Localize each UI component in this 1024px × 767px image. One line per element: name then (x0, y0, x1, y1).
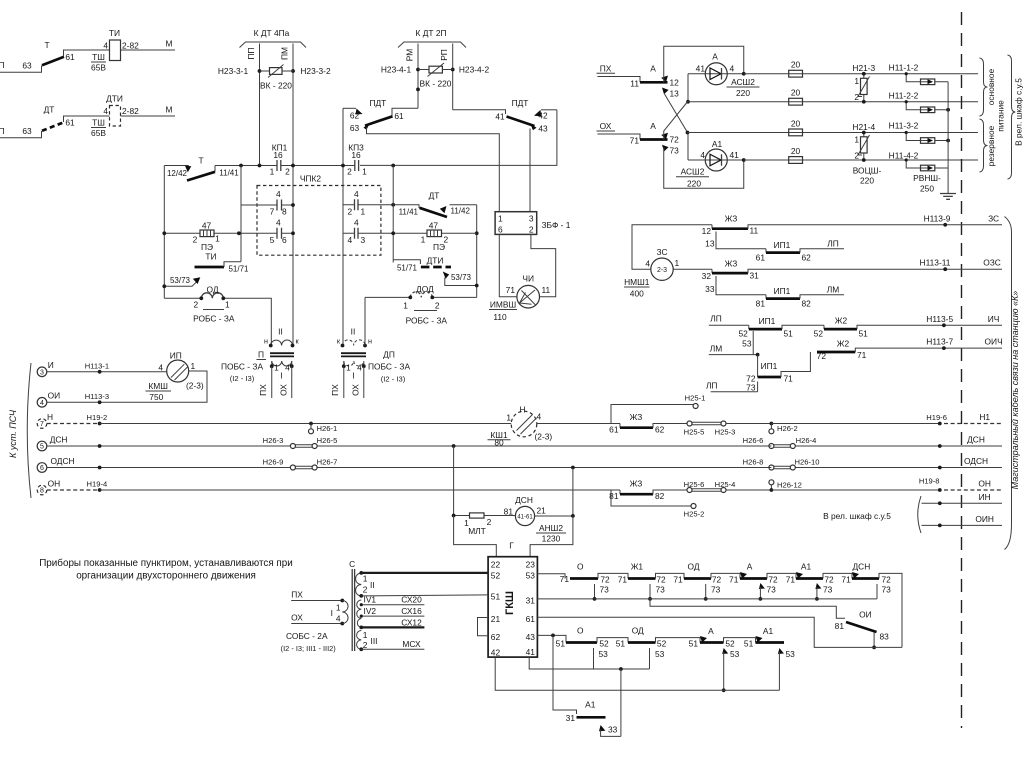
svg-text:11: 11 (750, 226, 759, 236)
svg-text:II: II (278, 327, 283, 337)
wire varistor leads (260, 70, 294, 72)
svg-text:А1: А1 (585, 700, 596, 710)
svg-text:52: 52 (814, 329, 824, 339)
svg-text:ИП: ИП (170, 351, 182, 361)
jumper H26-8 H26-10 (743, 456, 1002, 470)
resistor PE 47 center (421, 221, 449, 266)
svg-text:Н113-7: Н113-7 (926, 337, 953, 347)
svg-text:4: 4 (40, 400, 44, 407)
transformer SOBS core (352, 569, 354, 651)
svg-text:220: 220 (860, 176, 874, 186)
svg-text:53/73: 53/73 (170, 276, 191, 285)
transformer DP winding II dashed (337, 327, 372, 348)
contact DT 63-61 dashed (22, 105, 75, 137)
wire N row to KSh1 (100, 423, 512, 425)
svg-text:ЛМ: ЛМ (827, 284, 839, 294)
svg-text:2: 2 (435, 301, 440, 311)
bracket K DT 4Pa (240, 28, 307, 48)
svg-text:42: 42 (491, 648, 501, 658)
svg-text:I: I (280, 371, 282, 381)
wire 72 cross to row2 (664, 102, 688, 140)
wire PE row center (391, 231, 476, 235)
wire 42 riser to row (360, 110, 557, 166)
svg-text:71: 71 (786, 574, 796, 584)
svg-text:1: 1 (854, 135, 859, 145)
svg-text:1: 1 (270, 167, 275, 177)
wire P primary leads PH OH (258, 366, 292, 398)
svg-text:Н25-5: Н25-5 (684, 428, 705, 437)
wire ON row dashed start (47, 480, 107, 492)
wire C line thick (361, 572, 488, 574)
svg-text:ВК - 220: ВК - 220 (420, 79, 452, 89)
contact IP1 61-62 (756, 238, 844, 262)
brace rezervnoe (980, 119, 997, 172)
relay coil DSN ANSh2-1230 (504, 495, 566, 544)
resistor MLT (464, 513, 515, 536)
svg-text:Н25-6: Н25-6 (684, 480, 705, 489)
transformer SOBS winding II (356, 571, 375, 598)
svg-text:21: 21 (491, 614, 501, 624)
svg-text:61: 61 (394, 111, 404, 121)
svg-text:20: 20 (791, 60, 801, 70)
wire column x393 (392, 166, 394, 263)
wire LP feed ICh row (709, 313, 749, 325)
capacitor ChPK2 5-6 (239, 218, 295, 246)
svg-text:65В: 65В (91, 128, 106, 138)
bracket K DT 2P (398, 28, 466, 48)
inductor DOD ROBS-3A dashed (365, 284, 477, 326)
wire 41 line from box (529, 657, 649, 671)
transformer DP winding I dashed (342, 361, 366, 381)
svg-text:Н23-4-1: Н23-4-1 (381, 65, 412, 75)
svg-text:Н26-8: Н26-8 (743, 458, 764, 467)
svg-text:73: 73 (882, 585, 892, 595)
svg-text:ДСН: ДСН (853, 562, 871, 572)
wire row3 main (688, 132, 979, 134)
wire 63 lead row2 (0, 131, 42, 138)
transformer P winding I (270, 361, 294, 381)
svg-text:АНШ2: АНШ2 (539, 523, 563, 533)
svg-text:73: 73 (767, 585, 777, 595)
transformer P labels (221, 350, 266, 384)
contact OI 81-83 (835, 609, 889, 649)
terminal H113-7 (926, 337, 1002, 350)
svg-text:ОД: ОД (632, 625, 644, 635)
svg-text:Магистральный кабель связи на: Магистральный кабель связи на станцию «К… (1010, 291, 1020, 490)
contact IP1 72-71 (746, 352, 810, 384)
svg-text:МЛТ: МЛТ (468, 526, 486, 536)
svg-text:12/42: 12/42 (167, 169, 188, 178)
fuse 20 row4 (789, 146, 803, 164)
svg-text:IV1: IV1 (364, 595, 377, 605)
svg-text:ИЧ: ИЧ (988, 314, 1000, 324)
tick O 53 (594, 648, 609, 669)
svg-text:2: 2 (193, 300, 198, 310)
node H23-4-2 (451, 68, 455, 72)
brace osnovnoe (980, 58, 997, 116)
svg-text:42: 42 (538, 111, 548, 121)
svg-text:А: А (650, 64, 656, 74)
contact OD 71-72 upper (684, 562, 740, 585)
svg-text:ИМВШ: ИМВШ (490, 300, 516, 310)
svg-text:О: О (577, 562, 584, 572)
wire 61 line from box (537, 617, 902, 647)
wire PH feed (597, 64, 641, 89)
tick A1 53 arrow (778, 648, 795, 690)
svg-text:Н113-11: Н113-11 (920, 258, 951, 268)
svg-text:ДП: ДП (383, 350, 395, 360)
svg-text:Н19-8: Н19-8 (919, 476, 940, 485)
svg-text:И: И (48, 360, 54, 370)
brace main cable (1005, 217, 1012, 550)
node DSN branch (452, 444, 456, 448)
tick OD 73 (704, 584, 721, 601)
wire OH feed (291, 612, 344, 625)
node LP partial label (0, 60, 5, 136)
svg-text:ЗС: ЗС (988, 213, 999, 223)
svg-text:Н113-5: Н113-5 (926, 314, 953, 324)
jumper H26-9 H26-7 (263, 458, 338, 471)
svg-text:А1: А1 (801, 562, 812, 572)
svg-text:Н25-2: Н25-2 (684, 510, 705, 519)
wire PM (280, 44, 294, 346)
wire 21-62 loop (478, 618, 489, 636)
contact PDT 62-61-63 (343, 98, 418, 133)
svg-text:81: 81 (504, 507, 514, 517)
wire DSN riser left (452, 446, 470, 517)
svg-text:72: 72 (712, 574, 722, 584)
resistor PE 47 left (193, 221, 221, 262)
svg-text:ОИЧ: ОИЧ (985, 337, 1003, 347)
svg-text:н: н (368, 337, 372, 346)
svg-text:ОХ: ОХ (291, 612, 303, 622)
svg-text:4: 4 (645, 259, 650, 269)
svg-text:41: 41 (526, 647, 536, 657)
svg-text:ЖЗ: ЖЗ (725, 258, 738, 268)
svg-text:1230: 1230 (542, 534, 561, 544)
wire 62 column (342, 108, 344, 345)
brace IN OIN (823, 496, 921, 533)
wire N row dashed start (47, 413, 107, 425)
svg-text:72: 72 (656, 574, 666, 584)
arrester RVNSh row1 (889, 63, 948, 85)
svg-text:ДТИ: ДТИ (106, 94, 123, 104)
relay coil IP KMSh-750 (146, 351, 204, 402)
svg-text:63: 63 (22, 126, 32, 136)
svg-text:1: 1 (675, 258, 680, 268)
svg-text:3: 3 (40, 369, 44, 376)
capacitor KP1 16 (270, 143, 291, 177)
contact A1 51-52 lower (756, 626, 785, 643)
tick O 73 (593, 584, 610, 601)
svg-text:Н26-10: Н26-10 (795, 458, 820, 467)
svg-text:20: 20 (791, 88, 801, 98)
svg-text:4: 4 (336, 614, 341, 624)
contact ZhZ 61-62 (609, 412, 687, 435)
wire PE row left (162, 231, 240, 235)
contact ZhZ 12-11 (702, 214, 1002, 237)
arrester RVNSh row2 (889, 91, 950, 113)
svg-text:220: 220 (687, 179, 701, 189)
svg-text:2: 2 (363, 585, 368, 595)
svg-text:41-61: 41-61 (517, 514, 533, 520)
svg-text:РОБС - ЗА: РОБС - ЗА (193, 314, 235, 324)
svg-text:основное: основное (986, 68, 996, 105)
contact DTI 51/71 dashed (393, 260, 451, 273)
svg-text:ИП1: ИП1 (761, 361, 778, 371)
contact T 12/42 11/41 (164, 156, 239, 181)
svg-text:65В: 65В (91, 63, 106, 73)
tick A1 73 arrow (815, 583, 833, 601)
wire DSN row (47, 444, 772, 448)
svg-text:СХ20: СХ20 (401, 595, 422, 605)
svg-text:4: 4 (103, 41, 108, 51)
wire diode A left lead down (686, 72, 746, 104)
svg-text:ДТ: ДТ (429, 191, 440, 201)
tick A 73 arrow (759, 583, 777, 601)
wire 63 lead row1 (0, 66, 42, 73)
capacitor ChPK2 4-3 (343, 218, 393, 246)
capacitor ChPK2 7-8 (241, 189, 295, 217)
wire 51 line (361, 595, 488, 596)
tick A 53 arrow (722, 648, 740, 692)
svg-text:ТШ: ТШ (92, 118, 105, 128)
svg-text:Т: Т (198, 156, 203, 166)
svg-text:Н26-5: Н26-5 (317, 436, 338, 445)
svg-text:31: 31 (750, 270, 760, 280)
terminal H19-8 and ON (919, 476, 1002, 492)
svg-text:К ДТ 4Па: К ДТ 4Па (254, 28, 290, 38)
svg-text:52: 52 (657, 638, 667, 648)
arrester RVNSh row4 (889, 150, 948, 193)
wire 53 line from box (537, 574, 569, 584)
label pitanie (996, 100, 1006, 132)
svg-text:Н19-4: Н19-4 (87, 480, 108, 489)
svg-text:4: 4 (700, 150, 705, 160)
svg-text:41: 41 (696, 64, 706, 74)
varistor H21-4 VOCSh-220 (852, 122, 881, 186)
svg-text:РВНШ-: РВНШ- (913, 173, 941, 183)
wire row2 to DTI (64, 116, 110, 122)
svg-text:1: 1 (363, 574, 368, 584)
svg-text:ИП1: ИП1 (774, 286, 791, 296)
contact ZhZ 33 (705, 276, 766, 295)
svg-text:72: 72 (768, 574, 778, 584)
svg-text:РП: РП (439, 49, 449, 61)
transformer SOBS winding IV (357, 600, 364, 629)
svg-text:ВК - 220: ВК - 220 (260, 81, 292, 91)
resistor TI (91, 28, 139, 73)
svg-text:ОЗС: ОЗС (983, 258, 1001, 268)
svg-text:ДСН: ДСН (967, 435, 985, 445)
svg-text:РМ: РМ (405, 49, 415, 61)
svg-text:12: 12 (670, 78, 680, 88)
svg-text:1: 1 (403, 301, 408, 311)
svg-text:72: 72 (817, 351, 827, 361)
svg-text:1: 1 (336, 603, 341, 613)
contact Zh1 71-72 upper (628, 562, 684, 585)
contact ZhZ 13 (705, 232, 766, 249)
svg-text:М: М (166, 105, 173, 115)
svg-text:72: 72 (882, 574, 892, 584)
capacitor KP3 16 (347, 143, 367, 177)
jumper H26-3 H26-5 (263, 436, 338, 449)
svg-text:52: 52 (599, 638, 609, 648)
svg-text:11: 11 (542, 285, 551, 295)
svg-text:61: 61 (65, 52, 75, 62)
svg-text:(I2 - I3): (I2 - I3) (381, 375, 406, 384)
node below varistor (416, 88, 420, 92)
svg-text:3: 3 (529, 214, 534, 224)
tick Zh1 73 (648, 584, 665, 601)
svg-text:1: 1 (363, 630, 368, 640)
svg-text:51: 51 (556, 638, 566, 648)
svg-text:81: 81 (756, 298, 766, 308)
contact O 51-52 lower (566, 625, 628, 648)
svg-text:Ж1: Ж1 (631, 562, 644, 572)
svg-text:32: 32 (702, 271, 712, 281)
wire branch to H25-2 (611, 490, 704, 519)
svg-text:ДСН: ДСН (50, 434, 68, 444)
svg-text:71: 71 (784, 374, 794, 384)
svg-text:ПЭ: ПЭ (201, 242, 213, 252)
svg-text:А1: А1 (712, 139, 723, 149)
svg-text:73: 73 (670, 146, 680, 156)
brace v rel shkaf top (1008, 55, 1024, 179)
svg-text:Н113-9: Н113-9 (924, 213, 951, 223)
svg-text:РОБС - ЗА: РОБС - ЗА (406, 316, 448, 326)
wire PP (246, 44, 260, 166)
svg-text:МСХ: МСХ (402, 639, 421, 649)
tick DSN 73 (876, 584, 878, 599)
svg-text:20: 20 (791, 118, 801, 128)
fuse 20 row2 (789, 88, 803, 106)
contact ZhZ 32-31 (702, 258, 1002, 281)
svg-text:1: 1 (215, 234, 220, 244)
svg-text:2: 2 (854, 151, 859, 161)
svg-text:63: 63 (22, 61, 32, 71)
svg-text:41: 41 (495, 112, 505, 122)
wire LM feed (709, 344, 760, 357)
svg-text:4: 4 (158, 362, 163, 372)
svg-text:47: 47 (202, 221, 212, 231)
svg-text:1: 1 (421, 235, 426, 245)
inductor OD ROBS-3A (164, 285, 271, 346)
svg-text:62: 62 (350, 111, 360, 121)
svg-text:ПХ: ПХ (291, 589, 303, 599)
pins GKSh left (491, 560, 501, 658)
svg-text:41: 41 (730, 150, 740, 160)
contact IP1 53 tick (742, 331, 753, 355)
svg-text:4: 4 (103, 106, 108, 116)
svg-text:ЛП: ЛП (706, 381, 718, 391)
svg-text:53/73: 53/73 (451, 273, 472, 282)
wire row2 main (688, 101, 979, 103)
svg-text:IV2: IV2 (364, 606, 377, 616)
svg-text:51/71: 51/71 (228, 265, 249, 274)
node PP row (258, 164, 262, 168)
svg-text:1: 1 (274, 363, 279, 373)
contact IP1 81-82 (756, 284, 844, 308)
svg-text:ПХ: ПХ (600, 64, 612, 74)
brace K ust PSCh (8, 363, 31, 498)
wire G loop right 23 (509, 516, 573, 557)
svg-text:Н19-6: Н19-6 (926, 413, 947, 422)
wire OH feed (597, 121, 641, 146)
svg-text:53: 53 (655, 649, 665, 659)
svg-text:ИП1: ИП1 (759, 316, 776, 326)
svg-text:Н1: Н1 (979, 412, 990, 422)
svg-text:ПЭ: ПЭ (433, 242, 445, 252)
svg-text:73: 73 (823, 585, 833, 595)
svg-text:71: 71 (857, 350, 867, 360)
svg-text:52: 52 (491, 571, 501, 581)
svg-text:4: 4 (357, 363, 362, 373)
svg-text:ПМ: ПМ (280, 47, 290, 60)
svg-text:51: 51 (491, 592, 501, 602)
contact A1 31-33 (566, 700, 621, 737)
wire diode A1 left lead up (686, 131, 746, 162)
svg-text:НМШ1: НМШ1 (624, 277, 650, 287)
transformer DP core (341, 353, 366, 356)
svg-text:ДТИ: ДТИ (427, 256, 444, 266)
svg-text:Н21-3: Н21-3 (852, 63, 875, 73)
svg-text:43: 43 (526, 632, 536, 642)
node ODSN branch (571, 466, 575, 470)
svg-text:2: 2 (347, 167, 352, 177)
diode A ASh2 (688, 52, 760, 99)
svg-text:20: 20 (791, 146, 801, 156)
svg-text:Н26-4: Н26-4 (796, 436, 817, 445)
svg-text:63: 63 (350, 123, 360, 133)
svg-text:П: П (0, 126, 5, 136)
svg-text:53: 53 (742, 339, 752, 349)
svg-text:71: 71 (506, 285, 516, 295)
svg-text:1: 1 (346, 363, 351, 373)
svg-text:51: 51 (689, 638, 699, 648)
svg-text:4: 4 (276, 218, 281, 228)
svg-text:ПХ: ПХ (330, 384, 340, 396)
svg-text:I: I (352, 371, 354, 381)
svg-text:(I2 - I3; III1 - III2): (I2 - I3; III1 - III2) (281, 644, 336, 653)
svg-text:Н25-1: Н25-1 (685, 394, 706, 403)
svg-text:СОБС - 2А: СОБС - 2А (286, 631, 328, 641)
svg-text:53: 53 (526, 571, 536, 581)
svg-text:ЛМ: ЛМ (710, 344, 722, 354)
svg-text:53: 53 (730, 649, 740, 659)
svg-text:Н26-9: Н26-9 (263, 458, 284, 467)
svg-text:ОХ: ОХ (351, 384, 361, 396)
box ZBF-1 (495, 212, 571, 235)
svg-text:ПХ: ПХ (258, 384, 268, 396)
svg-text:71: 71 (841, 574, 851, 584)
svg-text:ЖЗ: ЖЗ (630, 479, 643, 489)
svg-text:8: 8 (40, 488, 44, 495)
svg-text:2: 2 (487, 517, 492, 527)
svg-text:6: 6 (282, 235, 287, 245)
contact PDT 41-42-43 (453, 98, 557, 134)
transformer SOBS labels (281, 559, 355, 653)
svg-text:52: 52 (725, 638, 735, 648)
transformer P core (270, 353, 294, 356)
svg-text:ЗС: ЗС (656, 247, 667, 257)
contact DSN 71-72 upper (852, 562, 902, 648)
svg-text:Н21-4: Н21-4 (852, 122, 875, 132)
wire ZBF pin6 to ChI (499, 234, 517, 296)
fuse 20 row3 (789, 118, 803, 136)
wire I row (47, 361, 167, 373)
wire line2 to OI (650, 599, 845, 618)
